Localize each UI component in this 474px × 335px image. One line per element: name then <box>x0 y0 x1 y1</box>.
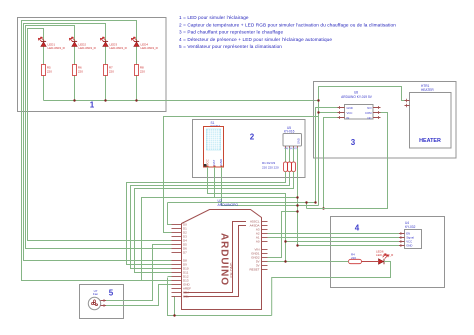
wire riser to D2 <box>164 117 319 233</box>
svg-text:LED-0603_R: LED-0603_R <box>376 253 394 257</box>
svg-text:LED-0603_R: LED-0603_R <box>48 46 66 50</box>
svg-text:3: 3 <box>351 138 356 147</box>
section box 4 <box>331 217 445 288</box>
wire GND ring left drop to D0 <box>168 203 172 225</box>
svg-text:GND: GND <box>219 158 223 166</box>
wire fan pin1 to D5 riser <box>106 245 172 301</box>
section box 2 <box>193 120 306 178</box>
wire bottom bus riser to SCL <box>172 297 175 316</box>
svg-text:HEATER: HEATER <box>419 138 441 144</box>
wire DHT GND <box>222 167 319 206</box>
wire 5V row to R4 <box>268 261 349 263</box>
LED LED4 <box>131 37 158 50</box>
wire GND ring top <box>168 202 316 204</box>
wire DHT VCC to 5V riser <box>208 167 286 262</box>
wire KY-032 EN from A2 <box>268 233 400 235</box>
svg-text:UNO R3: UNO R3 <box>229 262 234 278</box>
wire R1 to D9 <box>127 172 286 265</box>
junction 5V riser <box>317 99 319 101</box>
wire U bottom to relay COM <box>307 113 388 209</box>
wire 5V bus <box>44 100 319 102</box>
svg-text:ARDUINO KY-019 5V: ARDUINO KY-019 5V <box>341 95 373 99</box>
module U4 KY-032 <box>399 221 422 248</box>
wire R4 to LED6 <box>362 261 379 263</box>
LED LED1 <box>38 37 65 50</box>
svg-text:2 = Capteur de température + L: 2 = Capteur de température + LED RGB pou… <box>179 22 396 27</box>
heater HTR1 <box>405 84 452 148</box>
svg-text:HEATER: HEATER <box>421 88 434 92</box>
wire KY-016 GND net <box>297 148 299 246</box>
svg-text:IN: IN <box>347 116 350 120</box>
arduino U2 body <box>182 199 262 310</box>
svg-text:4(B) 3(G) 2(R): 4(B) 3(G) 2(R) <box>284 148 298 150</box>
svg-text:VCC: VCC <box>347 111 353 115</box>
junction ring <box>305 201 307 203</box>
wire GND2 riser <box>268 212 298 258</box>
svg-text:220: 220 <box>140 70 145 74</box>
wire LED3 net <box>24 24 172 261</box>
arduino right pins <box>249 220 267 272</box>
junction GND net column <box>296 196 298 198</box>
wire D12 tap <box>168 276 172 278</box>
svg-text:GND: GND <box>297 138 301 144</box>
svg-text:5 = Ventilateur pour représent: 5 = Ventilateur pour représenter la clim… <box>179 44 282 49</box>
svg-text:220: 220 <box>109 70 114 74</box>
wire ring jog to U bottom <box>306 203 308 209</box>
resistor R6 <box>73 65 84 76</box>
svg-text:D7: D7 <box>183 251 187 255</box>
svg-text:A0: A0 <box>256 240 260 244</box>
wire relay GND to ring <box>316 108 338 203</box>
svg-text:4: 4 <box>355 224 360 233</box>
svg-text:1 = LED pour simuler l'éclaira: 1 = LED pour simuler l'éclairage <box>179 15 249 20</box>
wire LED1 net <box>28 29 172 241</box>
wire LED6 return <box>272 262 391 316</box>
svg-text:KY-032: KY-032 <box>405 225 416 229</box>
wire relay IN drop <box>324 118 338 209</box>
svg-text:RESET: RESET <box>249 268 259 272</box>
svg-text:Fan: Fan <box>93 292 99 296</box>
svg-text:LED-0603_R: LED-0603_R <box>110 46 128 50</box>
LED LED3 <box>100 37 127 50</box>
svg-text:ARDUINOPO: ARDUINOPO <box>218 203 239 207</box>
svg-text:DAT: DAT <box>212 160 216 166</box>
svg-text:ARDUINO: ARDUINO <box>219 233 230 286</box>
wire R3 to D11 <box>135 172 294 273</box>
svg-text:220: 220 <box>78 70 83 74</box>
wire KY-032 VCC from 5V riser <box>286 241 400 243</box>
wire LED4 net <box>22 21 172 281</box>
svg-text:LED-0603_R: LED-0603_R <box>79 46 97 50</box>
wire SDA to A5SCL internal <box>184 222 247 293</box>
wire GND bottom bus <box>168 278 272 316</box>
relay module U8 KY-019 <box>338 91 381 121</box>
resistor R7 <box>104 65 115 76</box>
wire 5V riser to relay VCC and heater <box>319 87 405 206</box>
svg-text:220: 220 <box>47 70 52 74</box>
resistor R2 <box>288 162 292 172</box>
wire fan pin2 to GND pin <box>106 285 172 306</box>
fan U7 <box>88 289 106 310</box>
svg-text:4 = Détecteur de présence + LE: 4 = Détecteur de présence + LED pour sim… <box>179 37 332 42</box>
wire KY-016 pins <box>285 148 287 162</box>
resistor R3 <box>292 162 296 172</box>
svg-text:COM: COM <box>365 111 372 115</box>
junction on bus <box>73 99 75 101</box>
wire DHT DAT <box>142 167 215 281</box>
legend text <box>179 15 396 49</box>
svg-text:R1 R2 R3: R1 R2 R3 <box>262 161 276 165</box>
svg-text:LED-0603_R: LED-0603_R <box>141 46 159 50</box>
wire LED2 net <box>26 26 172 249</box>
svg-text:NC: NC <box>367 116 371 120</box>
LED LED2 <box>69 37 96 50</box>
LED LED6 <box>376 250 394 265</box>
wire KY-032 GND from GND riser <box>298 245 400 247</box>
section box 3 <box>314 82 457 159</box>
svg-text:GND: GND <box>406 244 412 248</box>
wire R2 to D10 <box>131 172 290 269</box>
svg-text:220 220 220: 220 220 220 <box>262 166 279 170</box>
svg-text:2: 2 <box>250 133 255 142</box>
sensor S1 DHT11 <box>204 121 224 167</box>
section box 5 <box>80 285 124 319</box>
resistor R4 <box>349 252 362 263</box>
resistor R1 <box>284 162 288 172</box>
module U5 KY-016 <box>283 126 302 150</box>
arduino left pins <box>172 223 192 299</box>
resistor R5 <box>42 65 53 76</box>
svg-text:3 = Pad chauffant pour représ: 3 = Pad chauffant pour représenter le ch… <box>179 30 284 35</box>
wire SCL to A4SDA internal <box>184 226 247 297</box>
wire KY-032 Signal from A1 <box>268 237 400 239</box>
svg-text:1: 1 <box>90 101 95 110</box>
section box 1 <box>18 18 167 112</box>
svg-text:GND: GND <box>347 106 353 110</box>
svg-text:5: 5 <box>109 289 114 298</box>
resistor R8 <box>135 65 146 76</box>
